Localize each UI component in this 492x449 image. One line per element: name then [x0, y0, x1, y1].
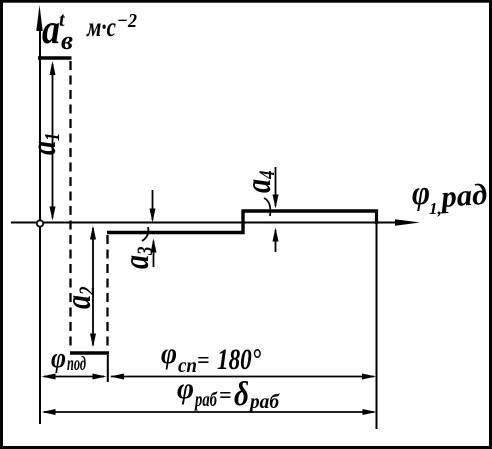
svg-text:в: в: [61, 26, 73, 55]
svg-text:a: a: [42, 7, 60, 53]
svg-text:φ: φ: [177, 372, 194, 405]
svg-text:a3: a3: [117, 246, 158, 269]
svg-text:180°: 180°: [217, 343, 261, 376]
svg-text:δ: δ: [234, 376, 249, 413]
svg-text:раб: раб: [194, 389, 218, 411]
svg-text:a1: a1: [24, 132, 64, 155]
svg-text:раб: раб: [248, 391, 280, 413]
svg-text:=: =: [219, 382, 232, 407]
svg-text:под: под: [67, 353, 86, 375]
svg-text:φ: φ: [161, 337, 177, 370]
svg-text:φ: φ: [412, 175, 430, 212]
svg-text:−2: −2: [117, 10, 137, 32]
svg-text:a4: a4: [239, 170, 280, 193]
svg-text:=: =: [197, 347, 210, 372]
svg-text:рад: рад: [437, 178, 488, 214]
svg-text:1,: 1,: [429, 199, 442, 218]
svg-text:м·с: м·с: [86, 12, 116, 42]
svg-text:a2: a2: [59, 286, 100, 309]
svg-text:φ: φ: [51, 343, 66, 374]
